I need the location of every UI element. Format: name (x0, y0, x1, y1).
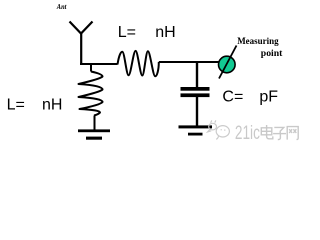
svg-text:L=: L= (7, 96, 25, 113)
antenna ANT symbol (70, 22, 93, 65)
watermark glyph 电 (261, 125, 273, 139)
svg-text:nH: nH (42, 96, 62, 113)
svg-text:21ic: 21ic (235, 123, 260, 144)
capacitor C1 bottom plate (181, 93, 210, 97)
svg-text:Ant: Ant (56, 2, 67, 11)
ground (under C1) (179, 125, 213, 128)
svg-text:pF: pF (259, 88, 278, 105)
wire: C1 to ground (196, 97, 198, 126)
wire: stub down to shunt inductor L1 (90, 64, 92, 72)
wire: antenna node to series inductor (80, 63, 118, 65)
measuring point probe diagonal line (219, 46, 237, 79)
svg-text:C=: C= (222, 88, 243, 105)
wire: L1 to ground (94, 116, 96, 131)
svg-text:L=: L= (118, 24, 136, 41)
wire: L2 to measuring point node (159, 61, 220, 63)
svg-text:Measuring: Measuring (237, 37, 279, 47)
watermark glyph 子 (273, 127, 286, 139)
watermark logo doodle (208, 120, 230, 139)
ground (under L1) (78, 129, 110, 132)
svg-text:point: point (261, 49, 283, 59)
watermark glyph 网 (287, 127, 298, 140)
inductor L1 (shunt, vertical coil) (79, 72, 103, 116)
node junction wire down to capacitor C1 (196, 61, 198, 88)
inductor L2 (series, horizontal coil) (118, 51, 159, 76)
measuring point probe (green circle) (219, 56, 236, 73)
capacitor C1 top plate (181, 87, 210, 91)
svg-text:nH: nH (155, 24, 175, 41)
